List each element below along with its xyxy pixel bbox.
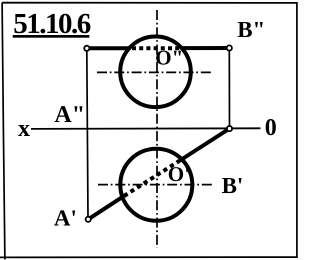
center line horizontal bottom (dash-dot) [98,184,212,186]
svg-text:B': B' [222,173,244,198]
axis x line [31,127,261,130]
svg-text:x: x [18,116,30,142]
node A' (bottom-left) [86,217,91,222]
line A'B' visible upper segment [183,129,230,159]
svg-text:A": A" [54,102,85,128]
svg-text:0: 0 [265,115,277,141]
node A" end (top-left) [84,46,89,51]
node B" (top-right) [227,45,232,50]
projection line A (vertical left) [87,48,88,219]
projection line B (vertical right) [228,48,230,129]
node on axis (B' projection) [227,126,232,131]
line A'B' visible lower segment [88,197,123,220]
svg-text:B": B" [237,17,265,42]
sphere frontal outline (top circle) [120,37,191,108]
line A"B" hidden chord (dotted) [132,46,180,50]
line A"B" visible right segment [182,46,230,50]
svg-text:O": O" [155,46,183,70]
center line horizontal top (dash-dot) [97,71,213,73]
line A'B' hidden chord (dotted) [124,158,185,196]
line A"B" visible left segment [87,46,129,50]
svg-text:A': A' [54,206,77,231]
center line vertical (dash-dot) [156,10,158,248]
sphere horizontal outline (bottom circle) [120,149,192,221]
svg-text:O': O' [168,162,190,186]
